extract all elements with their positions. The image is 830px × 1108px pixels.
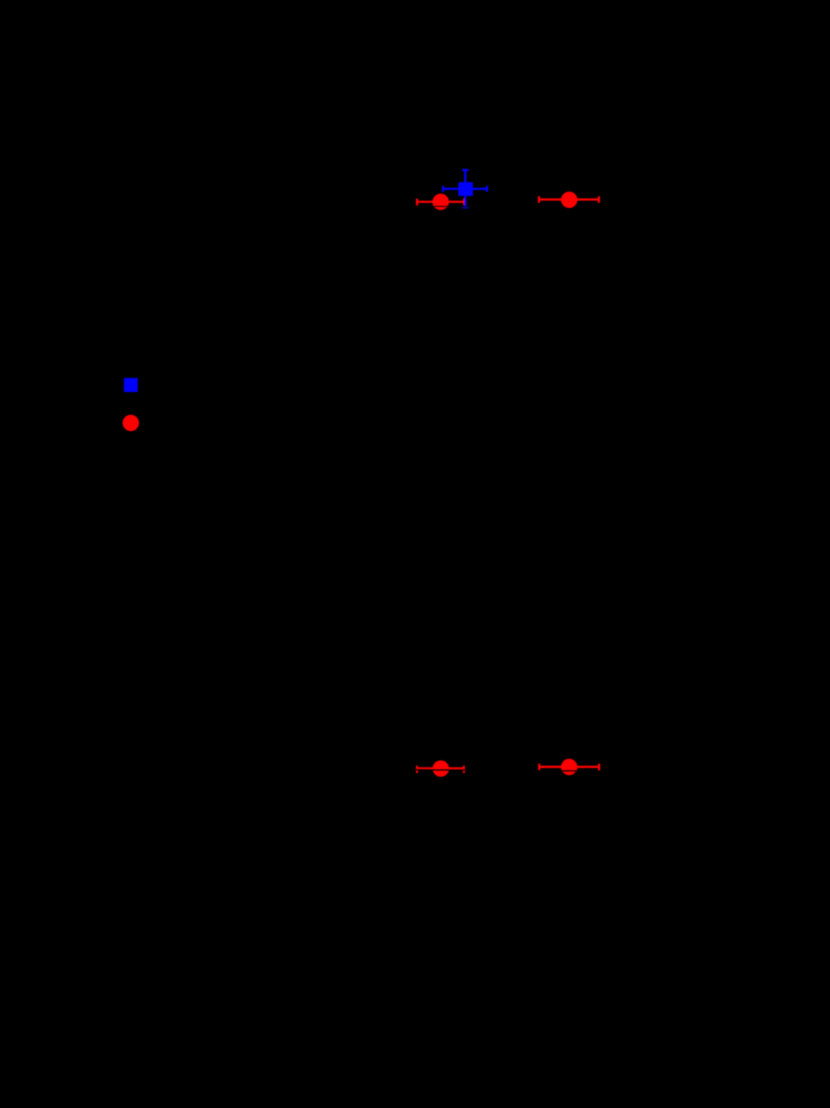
blue data point: horizontal error bar [443,186,487,192]
bottom-right red data point: circle marker [561,759,577,775]
bottom-left red data point: horizontal error bar [417,766,464,773]
legend marker: blue square [124,378,138,392]
black overlay line crossing bottom group [400,770,612,771]
top-left red data point: circle marker [433,194,449,210]
bottom-right red data point: horizontal error bar [539,764,599,770]
top-right red data point: horizontal error bar [539,196,599,203]
blue data point: square marker [458,182,473,196]
legend marker: red circle [123,415,139,431]
black overlay line crossing top group [408,205,482,208]
bottom-left red data point: circle marker [433,760,449,776]
top-right red data point: circle marker [561,192,577,208]
blue data point: vertical error bar [462,170,468,208]
top-left red data point: horizontal error bar [417,199,464,206]
